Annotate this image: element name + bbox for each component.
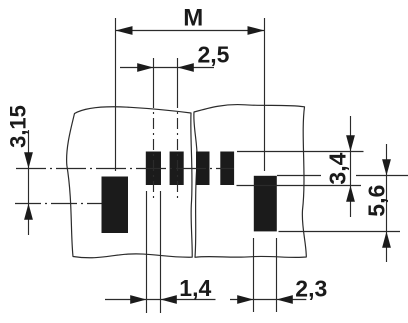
- svg-text:5,6: 5,6: [364, 185, 390, 217]
- svg-text:3,4: 3,4: [325, 152, 351, 184]
- svg-text:2,3: 2,3: [295, 276, 327, 302]
- svg-text:3,15: 3,15: [6, 105, 31, 148]
- svg-text:1,4: 1,4: [179, 275, 211, 301]
- svg-text:M: M: [183, 5, 203, 32]
- svg-text:2,5: 2,5: [198, 42, 230, 68]
